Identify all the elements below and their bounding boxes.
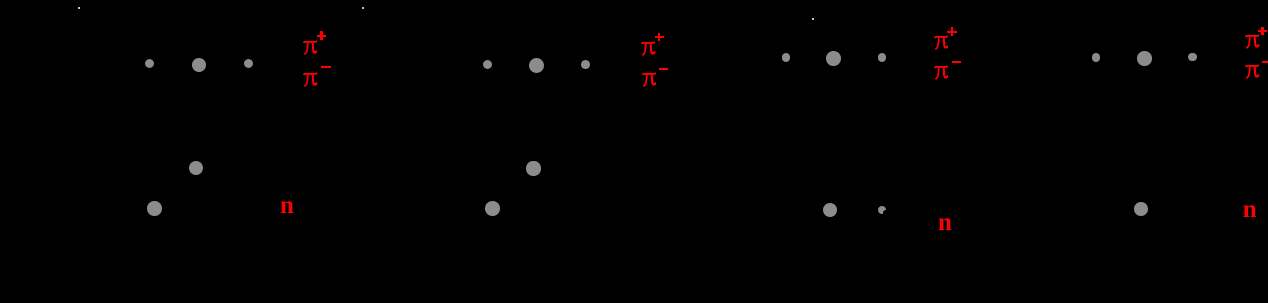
U2 plus superscript of pi+ (655, 33, 665, 42)
U1 middle large gray dot (189, 161, 203, 175)
U2 top-right small gray dot (581, 60, 590, 69)
U3 bottom small gray dot (878, 206, 886, 214)
U3 pi- glyph (red pi, Symbol style) (934, 64, 949, 81)
U4 pi+ glyph (red pi, Symbol style) (1245, 33, 1260, 50)
U3 repeat-unit index n label (938, 222, 952, 224)
U3 plus superscript of pi+ (947, 27, 957, 36)
U4 top-right small gray dot (1188, 53, 1197, 62)
U1 top-center large gray dot (192, 58, 206, 72)
U1 plus superscript of pi+ (317, 31, 327, 40)
U3 minus superscript of pi- (952, 61, 961, 63)
U3 top-center large gray dot (826, 51, 841, 66)
U3 top-right small gray dot (878, 53, 887, 62)
U3 bottom large gray dot (823, 203, 837, 217)
U2 top-center large gray dot (529, 58, 544, 73)
U1 top-left small gray dot (145, 59, 154, 68)
black notch cut into U3 bottom small gray dot (883, 210, 889, 216)
U1 minus superscript of pi- (321, 66, 331, 68)
U3 pi+ glyph (red pi, Symbol style) (934, 34, 949, 51)
white speck top-left (78, 7, 80, 9)
U4 repeat-unit index n label (1243, 209, 1257, 211)
shared pi glyph definition (Symbol-font style) (0, 0, 1, 1)
U4 plus superscript of pi+ (1258, 27, 1268, 36)
U1 top-right small gray dot (244, 59, 253, 68)
U3 top-left small gray dot (782, 53, 791, 62)
U1 repeat-unit index n label (280, 205, 294, 207)
U2 top-left small gray dot (483, 60, 492, 69)
U1 pi+ glyph (red pi, Symbol style) (303, 39, 318, 56)
U4 minus superscript of pi- (1262, 61, 1268, 63)
U4 top-left small gray dot (1092, 53, 1101, 62)
U2 middle large gray dot (526, 161, 540, 175)
U2 minus superscript of pi- (659, 68, 668, 70)
U4 pi- glyph (red pi, Symbol style) (1245, 63, 1260, 80)
U1 pi- glyph (red pi, Symbol style) (303, 71, 318, 88)
white speck above U3 (812, 18, 814, 20)
U2 lower-left large gray dot (485, 201, 500, 216)
U2 pi+ glyph (red pi, Symbol style) (641, 40, 656, 57)
U4 top-center large gray dot (1137, 51, 1152, 66)
U1 lower-left large gray dot (147, 201, 162, 216)
white speck top-middle (362, 7, 364, 9)
U2 pi- glyph (red pi, Symbol style) (642, 71, 657, 88)
U4 bottom large gray dot (1134, 202, 1148, 216)
